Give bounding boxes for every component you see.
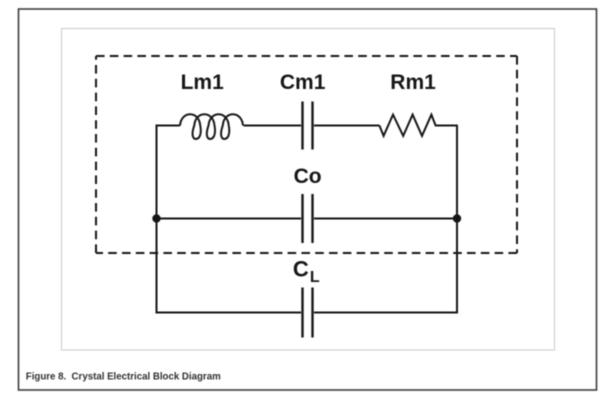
capacitor CL [303,288,313,338]
wire Cm1 to resistor [314,125,380,127]
wire middle left [156,218,302,220]
svg-text:Lm1: Lm1 [181,71,225,94]
inner diagram frame [62,29,555,351]
wire right vertical [456,126,458,313]
wire left vertical [156,126,158,313]
inductor Lm1 [180,114,243,139]
resistor Rm1 [379,115,457,136]
capacitor Co [303,194,313,243]
wire inductor to Cm1 [244,125,302,127]
node left junction [152,214,160,222]
dashed crystal boundary box [96,56,517,253]
wire top-left stub [156,125,181,127]
svg-text:Rm1: Rm1 [390,71,436,94]
wire bottom right [314,312,458,314]
svg-text:Cm1: Cm1 [280,71,326,94]
capacitor Cm1 [303,102,313,150]
svg-text:Figure 8. Crystal Electrical: Figure 8. Crystal Electrical Block Diagr… [26,372,221,383]
svg-text:C: C [293,257,309,282]
wire bottom left [156,312,302,314]
node right junction [453,214,461,222]
wire middle right [314,218,458,220]
svg-text:Co: Co [294,165,322,188]
svg-text:L: L [310,269,320,286]
